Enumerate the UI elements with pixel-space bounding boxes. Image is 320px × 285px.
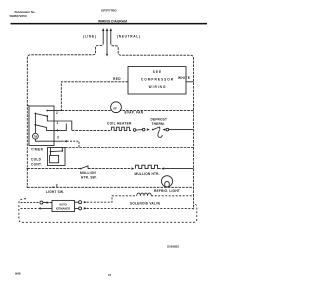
header rule (11, 23, 208, 25)
icemaker upper row left (21, 202, 40, 204)
svg-text:EF: EF (114, 107, 118, 111)
timer terminal2 stub (47, 110, 61, 112)
svg-text:5995072250: 5995072250 (10, 14, 27, 18)
heater connector terminal (142, 128, 145, 131)
defrost thermostat (152, 129, 154, 131)
wire switch to heater (88, 168, 131, 170)
wire compressor feed (61, 82, 128, 111)
wire line to left bus (27, 42, 103, 187)
timer blade 2 (35, 125, 54, 131)
cold control blade (51, 150, 63, 153)
mullion heater connector arrow left (131, 167, 134, 169)
light switch row wire (27, 186, 193, 188)
cold control contact stubs (51, 148, 63, 152)
svg-text:SEE: SEE (153, 70, 162, 74)
terminal3 connector arrow (64, 140, 67, 142)
timer terminal1 internal (47, 116, 54, 121)
svg-text:4: 4 (57, 129, 59, 133)
svg-text:COMPRESSOR: COMPRESSOR (141, 78, 174, 82)
svg-text:S169822: S169822 (167, 245, 179, 249)
svg-text:COIL HEATER: COIL HEATER (107, 122, 132, 126)
svg-text:MULLION HTR.: MULLION HTR. (135, 172, 160, 176)
evap fan row wire (61, 110, 193, 112)
cold control row wire (65, 147, 194, 149)
svg-text:LIGHT SW.: LIGHT SW. (46, 190, 64, 194)
wire heater to bus (164, 168, 193, 170)
icemaker dashed boundary (19, 199, 197, 223)
timer contact dot terminal2 (46, 110, 48, 112)
svg-text:WHITE: WHITE (178, 76, 190, 80)
mullion heater connector arrow right (161, 167, 164, 169)
svg-text:(NEUTRAL): (NEUTRAL) (117, 34, 141, 38)
thermostat connector terminal (166, 128, 169, 131)
svg-text:SOLENOID VALVE: SOLENOID VALVE (130, 202, 161, 206)
timer motor to terminal3 (35, 139, 54, 141)
refrigerator light lamp (161, 176, 172, 187)
heater terminal left (133, 129, 136, 132)
svg-text:1: 1 (57, 121, 59, 125)
icemaker lower row right (75, 207, 79, 209)
light switch (52, 186, 54, 188)
icemaker connector arrow (47, 201, 50, 203)
svg-text:RED: RED (113, 77, 121, 81)
svg-text:MULLION: MULLION (80, 171, 96, 175)
svg-text:WIRING DIAGRAM: WIRING DIAGRAM (98, 20, 127, 24)
svg-text:TM: TM (34, 137, 37, 139)
svg-text:THERM.: THERM. (152, 122, 165, 126)
cold control bellows (50, 152, 52, 156)
timer bus tick (27, 105, 29, 107)
timer contact dot blade1 tip (46, 115, 48, 117)
wire white compressor to neutral bus (186, 81, 194, 83)
wire terminal1 to heater elbow (54, 121, 72, 130)
svg-text:EVAP. FAN: EVAP. FAN (125, 111, 144, 115)
svg-text:ICEMAKER: ICEMAKER (56, 207, 70, 211)
mullion heater switch (80, 168, 82, 170)
wire terminal4 riser (54, 124, 66, 131)
svg-text:COLD: COLD (31, 158, 42, 162)
wire terminal3 dashed link (67, 141, 79, 147)
thermostat connector arrow (162, 128, 165, 130)
wire solenoid to bus (151, 195, 193, 197)
svg-text:REFRIG. LIGHT: REFRIG. LIGHT (154, 189, 180, 193)
lamp filament loop (165, 182, 169, 187)
icemaker upper row right (75, 201, 79, 203)
cold control box (48, 148, 66, 166)
timer pivot dot upper (35, 113, 37, 115)
svg-text:AUTO: AUTO (59, 203, 67, 207)
power cord line conductor (102, 31, 104, 43)
svg-text:9/98: 9/98 (15, 272, 21, 276)
svg-text:2: 2 (56, 111, 58, 115)
svg-text:HTR. SW.: HTR. SW. (81, 176, 97, 180)
compressor box U100 (128, 67, 186, 95)
timer motor TM (33, 133, 39, 139)
icemaker box (52, 200, 75, 211)
svg-text:12: 12 (108, 273, 112, 277)
mullion heater switch row wire (27, 168, 80, 170)
evap fan motor (111, 102, 122, 113)
svg-text:Publication No.: Publication No. (15, 10, 36, 14)
timer internal common vertical (34, 114, 36, 134)
svg-text:CONT.: CONT. (31, 163, 42, 167)
svg-text:GRTF/TRG: GRTF/TRG (101, 9, 117, 13)
wire thermostat to bus (169, 129, 194, 131)
timer blade 1 (35, 114, 47, 117)
wire heater to connector (136, 129, 143, 131)
svg-text:(LINE): (LINE) (83, 35, 97, 39)
timer pivot dot lower (35, 124, 37, 126)
solenoid valve coil (137, 193, 151, 196)
defrost coil heater element (112, 127, 132, 130)
power cord neutral conductor (110, 31, 112, 43)
svg-text:3: 3 (57, 136, 59, 140)
wire neutral to right bus (111, 42, 194, 210)
timer box (29, 106, 54, 146)
power cord ground conductor (106, 31, 108, 54)
icemaker terminal (40, 201, 43, 204)
icemaker lower row left arrow (38, 207, 41, 209)
svg-text:TIMER: TIMER (31, 148, 44, 152)
svg-text:DEFROST: DEFROST (151, 118, 168, 122)
heater connector arrow (147, 128, 150, 130)
defrost heater row wire (72, 129, 112, 131)
svg-text:WIRING: WIRING (149, 85, 167, 89)
mullion heater element (136, 165, 161, 168)
defrost thermostat capillary hook (158, 130, 162, 137)
